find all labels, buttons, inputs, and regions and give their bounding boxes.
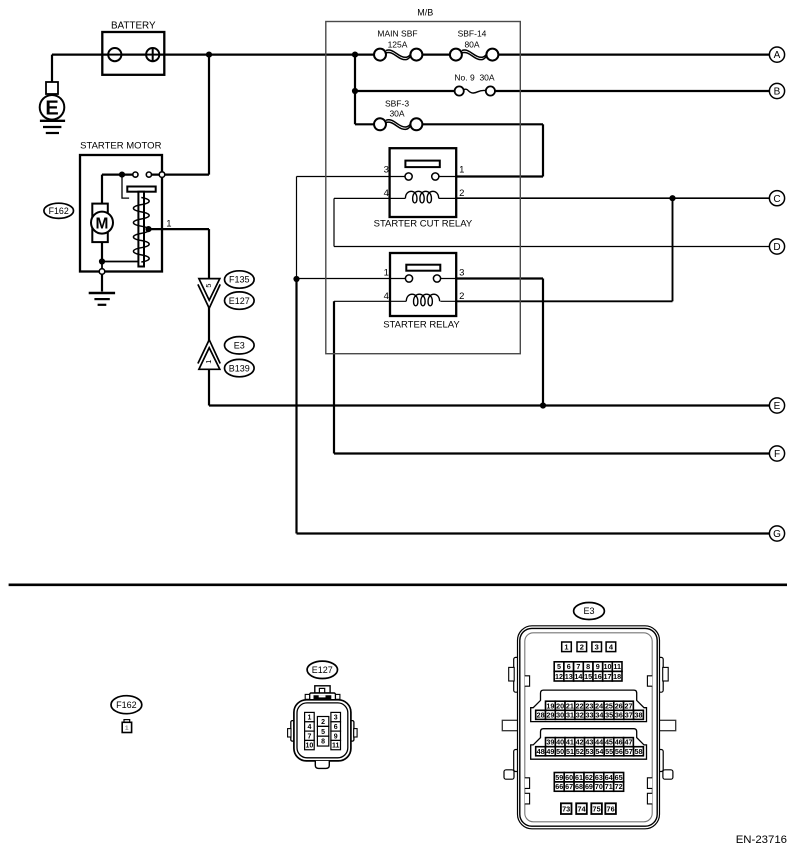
node starter motor junction xyxy=(119,172,125,178)
svg-text:20: 20 xyxy=(556,701,564,710)
motor armature housing xyxy=(92,204,108,243)
svg-text:34: 34 xyxy=(595,710,603,719)
svg-text:E3: E3 xyxy=(583,606,594,616)
svg-text:70: 70 xyxy=(595,782,603,791)
svg-text:8: 8 xyxy=(586,662,590,671)
starter cut relay coil lead right xyxy=(439,197,457,199)
svg-text:4: 4 xyxy=(307,724,311,731)
svg-text:55: 55 xyxy=(605,747,613,756)
wire starter cut relay pin 3 to left vertical xyxy=(297,176,409,178)
starter motor motor lead up xyxy=(101,175,103,204)
connector code E3 (bottom) xyxy=(574,603,605,620)
ground E (battery ground) xyxy=(40,82,65,133)
node junction row B xyxy=(352,88,358,94)
svg-text:45: 45 xyxy=(605,738,613,747)
node F xyxy=(769,446,784,461)
connector code F162 (starter motor) xyxy=(44,203,74,218)
svg-text:1: 1 xyxy=(307,715,311,722)
starter relay coil lead left xyxy=(390,300,406,302)
wire connector to row E xyxy=(208,369,210,406)
node A xyxy=(769,47,784,62)
svg-text:1: 1 xyxy=(204,360,213,364)
wire SBF-3 row xyxy=(355,123,543,125)
svg-text:E: E xyxy=(774,401,781,412)
svg-text:65: 65 xyxy=(615,773,623,782)
wire bus row E xyxy=(209,404,769,406)
wire vertical to row G xyxy=(295,279,297,534)
node starter relay pin 1 junction xyxy=(293,276,299,282)
svg-text:B139: B139 xyxy=(229,363,250,373)
svg-text:46: 46 xyxy=(615,738,623,747)
connector code F135 xyxy=(225,271,255,288)
starter cut relay pin 3 circle xyxy=(405,173,412,180)
svg-text:G: G xyxy=(773,529,781,540)
svg-text:61: 61 xyxy=(575,773,583,782)
wire vertical battery junction to starter motor xyxy=(208,55,210,175)
svg-text:30: 30 xyxy=(556,710,564,719)
fuse SBF-14 80A xyxy=(450,29,499,61)
svg-text:64: 64 xyxy=(605,773,613,782)
node solenoid terminal 1 xyxy=(145,226,151,232)
wire vertical pin 3 to row E xyxy=(542,279,544,406)
starter relay contact wire left xyxy=(390,278,409,280)
svg-text:28: 28 xyxy=(537,710,545,719)
svg-text:80A: 80A xyxy=(464,39,479,49)
svg-text:68: 68 xyxy=(575,782,583,791)
starter relay contact wire right xyxy=(437,278,456,280)
svg-text:125A: 125A xyxy=(388,39,408,49)
svg-text:18: 18 xyxy=(613,672,621,681)
motor M circle xyxy=(91,212,113,234)
connector code B139 xyxy=(225,359,255,376)
starter motor case terminal xyxy=(159,172,165,178)
svg-text:3: 3 xyxy=(595,643,599,652)
svg-text:76: 76 xyxy=(607,804,615,813)
svg-text:26: 26 xyxy=(615,701,623,710)
wire battery ground drop xyxy=(51,55,53,82)
svg-text:E: E xyxy=(45,98,58,120)
wire case to ground xyxy=(101,274,103,291)
wire vertical M/B junction A-B-SBF3 xyxy=(354,55,356,125)
connector E127 pin column 2-5-8 xyxy=(317,717,328,747)
svg-text:6: 6 xyxy=(567,662,571,671)
starter relay coil xyxy=(406,294,439,306)
wire bus row A (battery to A) xyxy=(52,53,769,55)
svg-text:STARTER RELAY: STARTER RELAY xyxy=(383,320,460,331)
svg-text:BATTERY: BATTERY xyxy=(111,21,156,32)
connector E3 housing xyxy=(502,626,675,829)
svg-text:5: 5 xyxy=(321,729,325,736)
wire starter motor terminal 1 to vertical xyxy=(149,228,210,230)
svg-text:47: 47 xyxy=(624,738,632,747)
svg-text:2: 2 xyxy=(459,188,464,199)
svg-text:F162: F162 xyxy=(49,206,69,216)
connector code F162 (bottom) xyxy=(111,696,142,714)
svg-text:MAIN SBF: MAIN SBF xyxy=(377,29,417,39)
solenoid return wire xyxy=(102,261,138,263)
relay starter cut relay box xyxy=(390,148,457,217)
node row C junction xyxy=(669,195,675,201)
starter motor switch contact b xyxy=(146,172,151,177)
svg-text:40: 40 xyxy=(556,738,564,747)
node battery junction xyxy=(206,52,212,58)
starter relay pin 3 circle xyxy=(433,275,440,282)
svg-text:50: 50 xyxy=(556,747,564,756)
node junction row A xyxy=(352,52,358,58)
svg-text:10: 10 xyxy=(603,662,611,671)
connector E3 fuse row 1-4 xyxy=(562,642,616,652)
svg-text:67: 67 xyxy=(565,782,573,791)
svg-text:73: 73 xyxy=(562,804,570,813)
svg-text:54: 54 xyxy=(595,747,603,756)
wire starter relay pin 4 horizontal xyxy=(334,300,406,302)
svg-text:E127: E127 xyxy=(229,296,250,306)
solenoid plunger T bar xyxy=(127,187,155,192)
svg-text:17: 17 xyxy=(603,672,611,681)
wire to case ground xyxy=(101,262,103,272)
node C xyxy=(769,191,784,206)
node row E junction xyxy=(540,402,546,408)
svg-text:16: 16 xyxy=(594,672,602,681)
starter cut relay contact wire right xyxy=(435,176,456,178)
connector 1 (E3/B139) xyxy=(198,340,220,370)
svg-text:1: 1 xyxy=(125,725,129,732)
svg-text:3: 3 xyxy=(459,267,464,278)
starter cut relay coil xyxy=(405,191,438,203)
svg-text:STARTER MOTOR: STARTER MOTOR xyxy=(80,141,161,152)
starter cut relay contact wire left xyxy=(390,176,409,178)
connector E3 block 39-58 housing xyxy=(531,729,647,760)
svg-text:14: 14 xyxy=(574,672,582,681)
fuse No.9 30A xyxy=(454,73,495,96)
solenoid coil xyxy=(133,198,149,263)
svg-text:43: 43 xyxy=(585,738,593,747)
wire vertical SBF-3 to relay pin 1 xyxy=(542,124,544,176)
svg-text:A: A xyxy=(774,50,781,61)
svg-text:72: 72 xyxy=(615,782,623,791)
svg-text:13: 13 xyxy=(565,672,573,681)
node B xyxy=(769,83,784,98)
svg-text:8: 8 xyxy=(321,739,325,746)
svg-text:1: 1 xyxy=(166,218,171,229)
svg-text:11: 11 xyxy=(332,743,340,750)
starter motor switch wire xyxy=(149,174,209,176)
starter cut relay coil lead left xyxy=(390,197,406,199)
svg-text:M/B: M/B xyxy=(417,8,433,18)
svg-text:1: 1 xyxy=(384,267,389,278)
svg-text:29: 29 xyxy=(546,710,554,719)
svg-text:32: 32 xyxy=(576,710,584,719)
wire vertical terminal 1 to connector 5 xyxy=(208,229,210,280)
svg-text:33: 33 xyxy=(586,710,594,719)
svg-text:E127: E127 xyxy=(312,665,333,675)
starter cut relay contact bar xyxy=(405,161,439,168)
svg-text:STARTER CUT RELAY: STARTER CUT RELAY xyxy=(374,218,473,229)
svg-text:M: M xyxy=(96,215,109,232)
svg-text:49: 49 xyxy=(546,747,554,756)
svg-text:41: 41 xyxy=(566,738,574,747)
svg-text:EN-23716: EN-23716 xyxy=(736,834,787,846)
connector E3 grid 5-18 xyxy=(554,662,622,681)
starter motor plunger link wire xyxy=(122,176,129,198)
svg-text:53: 53 xyxy=(586,747,594,756)
svg-text:E3: E3 xyxy=(234,341,245,351)
node E xyxy=(769,398,784,413)
M/B fuse box outline xyxy=(326,22,521,354)
starter relay coil lead right xyxy=(440,300,456,302)
relay starter relay box xyxy=(390,253,456,316)
connector E3 block 19-38 housing xyxy=(531,690,647,722)
wire vertical pin 4 to row D xyxy=(333,198,335,246)
svg-text:66: 66 xyxy=(555,782,563,791)
solenoid plunger shaft xyxy=(138,192,144,267)
svg-text:15: 15 xyxy=(584,672,592,681)
svg-text:6: 6 xyxy=(334,724,338,731)
svg-text:3: 3 xyxy=(334,715,338,722)
svg-text:F: F xyxy=(774,449,780,460)
wire cut relay pin 4 horizontal xyxy=(334,197,405,199)
wire between connectors xyxy=(208,307,210,342)
svg-text:71: 71 xyxy=(605,782,613,791)
starter motor box xyxy=(80,155,162,272)
wire vertical C to starter relay pin 2 xyxy=(672,198,674,301)
svg-text:74: 74 xyxy=(577,804,586,813)
svg-text:7: 7 xyxy=(576,662,580,671)
svg-text:9: 9 xyxy=(596,662,600,671)
svg-text:38: 38 xyxy=(634,710,642,719)
svg-text:59: 59 xyxy=(555,773,563,782)
svg-text:4: 4 xyxy=(384,188,389,199)
wire bus row F xyxy=(334,452,769,454)
ground (starter motor) xyxy=(89,293,115,305)
wire bus row B xyxy=(355,90,769,92)
wire starter cut relay pin 1 from SBF-3 xyxy=(435,175,543,177)
svg-text:37: 37 xyxy=(625,710,633,719)
svg-text:9: 9 xyxy=(334,733,338,740)
starter relay pin 1 circle xyxy=(405,275,412,282)
svg-text:2: 2 xyxy=(580,643,584,652)
svg-text:69: 69 xyxy=(585,782,593,791)
node motor ground junction xyxy=(99,258,105,264)
svg-text:F162: F162 xyxy=(116,700,137,710)
svg-text:60: 60 xyxy=(565,773,573,782)
svg-text:19: 19 xyxy=(546,701,554,710)
svg-text:25: 25 xyxy=(605,701,613,710)
motor lead down xyxy=(101,242,103,261)
svg-text:63: 63 xyxy=(595,773,603,782)
svg-text:2: 2 xyxy=(459,291,464,302)
svg-text:58: 58 xyxy=(634,747,642,756)
svg-text:44: 44 xyxy=(595,738,603,747)
svg-text:No. 9 30A: No. 9 30A xyxy=(454,73,494,83)
svg-text:56: 56 xyxy=(615,747,623,756)
starter motor case ground terminal xyxy=(99,269,105,275)
connector E3 grid 59-72 xyxy=(554,773,623,792)
svg-text:1: 1 xyxy=(459,165,464,176)
node G xyxy=(769,526,784,541)
starter cut relay pin 1 circle xyxy=(432,173,439,180)
svg-text:12: 12 xyxy=(555,672,563,681)
connector code E3 xyxy=(225,337,255,354)
svg-text:2: 2 xyxy=(321,719,325,726)
svg-text:11: 11 xyxy=(613,662,621,671)
svg-text:C: C xyxy=(773,194,780,205)
svg-text:4: 4 xyxy=(384,291,389,302)
battery xyxy=(102,21,164,75)
svg-text:42: 42 xyxy=(576,738,584,747)
svg-text:3: 3 xyxy=(384,165,389,176)
starter relay contact bar xyxy=(406,265,440,271)
node D xyxy=(769,239,784,254)
svg-text:7: 7 xyxy=(307,733,311,740)
svg-text:1: 1 xyxy=(564,643,568,652)
connector E3 grid 39-58 xyxy=(536,738,644,756)
connector E3 grid 19-38 xyxy=(536,701,644,719)
wire row C from cut relay pin 2 xyxy=(439,197,770,199)
svg-text:48: 48 xyxy=(537,747,545,756)
connector E127 pin column 3-6-9-11 xyxy=(331,712,341,749)
wire starter relay pin 1 horizontal xyxy=(297,278,410,280)
connector E127 pin column 1-4-7-10 xyxy=(305,712,315,749)
connector code E127 (bottom) xyxy=(307,661,337,678)
svg-text:27: 27 xyxy=(624,701,632,710)
svg-text:SBF-14: SBF-14 xyxy=(458,29,487,39)
wire vertical pin 4 to row F xyxy=(333,301,335,453)
svg-text:30A: 30A xyxy=(389,109,404,119)
connector E3 fuse row 73-76 xyxy=(561,803,616,814)
svg-text:10: 10 xyxy=(306,743,314,750)
svg-text:75: 75 xyxy=(593,804,601,813)
svg-text:SBF-3: SBF-3 xyxy=(385,98,409,108)
wire bus row G xyxy=(297,532,770,534)
svg-text:5: 5 xyxy=(204,284,213,288)
svg-text:62: 62 xyxy=(585,773,593,782)
separator line xyxy=(9,583,787,586)
wire vertical cut-relay pin3 down (thin) xyxy=(296,177,298,280)
svg-text:24: 24 xyxy=(595,701,603,710)
wire starter relay pin 3 horizontal xyxy=(437,277,543,279)
starter motor switch contact a xyxy=(133,172,138,177)
fuse SBF-3 30A xyxy=(374,98,422,130)
svg-text:57: 57 xyxy=(625,747,633,756)
connector E127 housing xyxy=(288,686,358,769)
svg-text:31: 31 xyxy=(566,710,574,719)
connector 5 (F135/E127) xyxy=(198,279,220,309)
svg-text:51: 51 xyxy=(566,747,574,756)
svg-text:5: 5 xyxy=(557,662,561,671)
svg-text:23: 23 xyxy=(585,701,593,710)
svg-text:52: 52 xyxy=(576,747,584,756)
svg-text:D: D xyxy=(773,242,780,253)
wire starter relay pin 2 horizontal xyxy=(440,300,672,302)
wire bus row D xyxy=(334,246,769,248)
svg-text:B: B xyxy=(774,87,781,98)
svg-text:21: 21 xyxy=(566,701,574,710)
svg-text:39: 39 xyxy=(546,738,554,747)
svg-text:36: 36 xyxy=(615,710,623,719)
connector code E127 xyxy=(225,292,255,309)
svg-text:22: 22 xyxy=(576,701,584,710)
svg-text:F135: F135 xyxy=(229,275,250,285)
svg-text:35: 35 xyxy=(605,710,613,719)
connector F162 pinout xyxy=(122,720,131,733)
fuse MAIN SBF 125A xyxy=(374,29,422,61)
starter motor top wire xyxy=(102,174,135,176)
